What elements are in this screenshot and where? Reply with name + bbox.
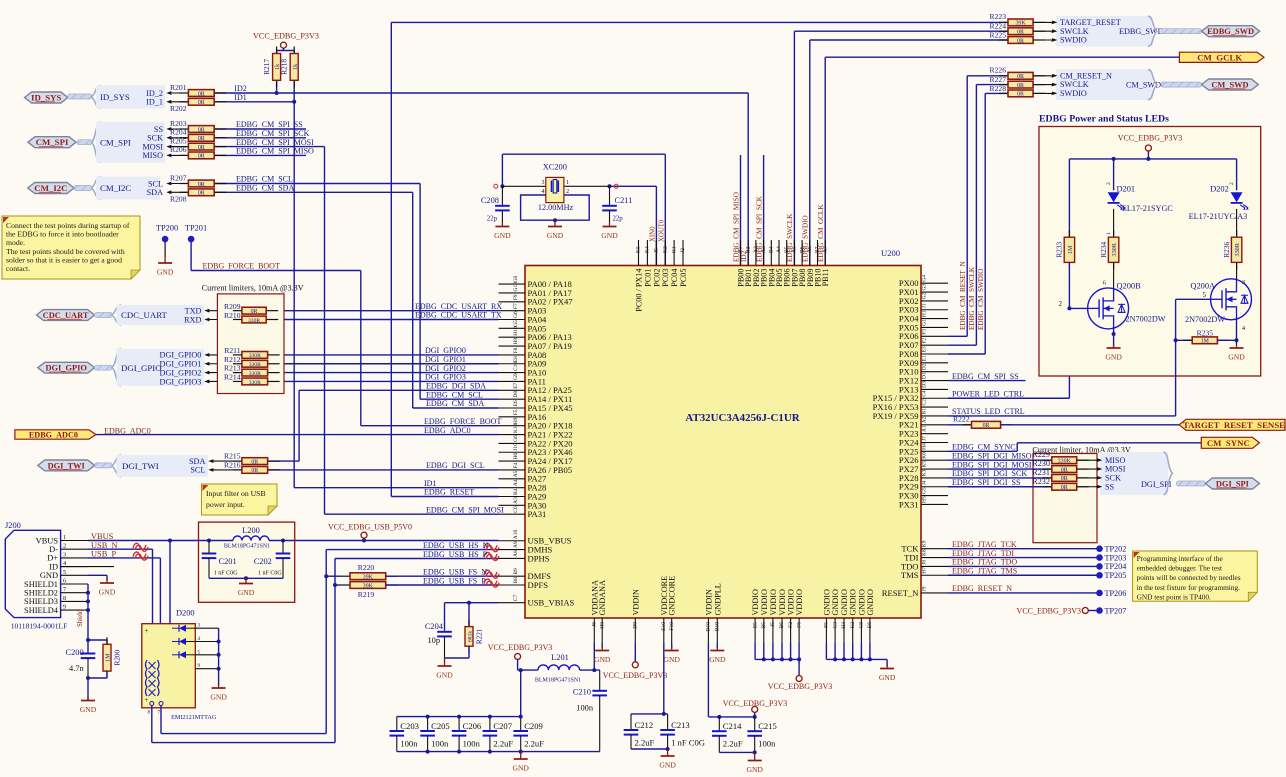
svg-text:GND: GND [238, 588, 255, 597]
svg-text:EDBG Power and Status LEDs: EDBG Power and Status LEDs [1039, 114, 1169, 125]
svg-text:EDBG CM SCL: EDBG CM SCL [236, 175, 293, 184]
svg-text:2: 2 [566, 188, 569, 195]
svg-text:0R: 0R [1061, 476, 1068, 482]
svg-text:D+: D+ [47, 554, 58, 563]
svg-text:C206: C206 [463, 721, 482, 731]
svg-text:GNDCORE: GNDCORE [668, 576, 677, 616]
svg-text:PC03: PC03 [661, 269, 670, 287]
svg-text:EDBG RESET: EDBG RESET [424, 488, 474, 497]
svg-text:L201: L201 [551, 653, 569, 662]
svg-text:Programming interface of the: Programming interface of the [1137, 554, 1223, 563]
svg-text:CM SYNC: CM SYNC [1207, 438, 1250, 448]
svg-text:H6: H6 [513, 453, 519, 460]
svg-text:1: 1 [1106, 232, 1112, 235]
svg-text:embedded debugger. The test: embedded debugger. The test [1137, 564, 1222, 573]
svg-text:XC200: XC200 [543, 163, 567, 172]
svg-text:330R: 330R [1111, 242, 1118, 256]
svg-text:GND: GND [1105, 353, 1122, 362]
svg-text:39K: 39K [363, 583, 374, 589]
svg-text:EDBG USB FS N: EDBG USB FS N [423, 568, 487, 577]
svg-text:EDBG USB FS P: EDBG USB FS P [423, 576, 486, 585]
svg-text:EDBG DGI SCL: EDBG DGI SCL [426, 461, 485, 470]
svg-text:R204: R204 [170, 128, 187, 137]
svg-text:USB N: USB N [91, 541, 118, 550]
svg-text:EDBG CM SDA: EDBG CM SDA [426, 399, 484, 408]
svg-text:100n: 100n [576, 703, 594, 712]
svg-text:SHIELD3: SHIELD3 [24, 597, 58, 606]
svg-text:H10: H10 [513, 326, 519, 336]
svg-text:F2: F2 [922, 338, 928, 344]
svg-text:ID1: ID1 [424, 479, 436, 488]
svg-text:F6: F6 [796, 622, 802, 628]
svg-text:PC05: PC05 [679, 269, 688, 287]
svg-text:R222: R222 [953, 415, 970, 424]
svg-text:0R: 0R [1017, 92, 1024, 98]
svg-text:D8: D8 [513, 391, 519, 398]
svg-text:A5: A5 [513, 470, 519, 477]
svg-text:H1: H1 [922, 310, 928, 317]
svg-text:100n: 100n [400, 738, 418, 748]
svg-text:GND: GND [494, 231, 511, 240]
svg-text:J9: J9 [922, 586, 928, 591]
svg-text:CM_I2C: CM_I2C [34, 183, 67, 193]
svg-text:MISO: MISO [1105, 456, 1126, 465]
svg-text:R216: R216 [224, 460, 241, 469]
svg-text:39K: 39K [363, 575, 374, 581]
svg-text:C7: C7 [513, 595, 519, 602]
svg-text:B5: B5 [784, 246, 790, 253]
svg-text:VCC_EDBG_P3V3: VCC_EDBG_P3V3 [1017, 606, 1081, 615]
svg-text:GND: GND [663, 655, 680, 664]
svg-text:K1: K1 [671, 246, 677, 253]
svg-text:A4: A4 [776, 246, 782, 253]
svg-text:8: 8 [63, 595, 66, 602]
svg-text:R211: R211 [224, 346, 240, 355]
svg-text:GND: GND [659, 761, 676, 770]
svg-text:EDBG JTAG TDI: EDBG JTAG TDI [952, 549, 1014, 558]
svg-text:BLM18PG471SN1: BLM18PG471SN1 [535, 678, 581, 684]
svg-text:K6: K6 [922, 452, 928, 459]
svg-text:CM_SWD: CM_SWD [1211, 81, 1248, 90]
svg-text:E5: E5 [752, 622, 758, 628]
svg-text:SHIELD1: SHIELD1 [24, 580, 58, 589]
svg-text:0R: 0R [198, 91, 205, 97]
svg-text:power input.: power input. [206, 500, 245, 509]
svg-text:R225: R225 [990, 30, 1007, 39]
svg-text:330R: 330R [1234, 242, 1241, 256]
svg-text:2: 2 [1229, 182, 1235, 185]
svg-text:R217: R217 [262, 59, 271, 75]
svg-text:EDBG DGI SDA: EDBG DGI SDA [426, 382, 486, 391]
svg-text:K2: K2 [662, 246, 668, 253]
svg-text:GND: GND [40, 571, 58, 580]
svg-text:XIN0: XIN0 [650, 226, 657, 242]
svg-text:A4: A4 [513, 479, 519, 486]
svg-text:EDBG CDC USART RX: EDBG CDC USART RX [415, 302, 502, 311]
svg-text:B6: B6 [779, 622, 785, 629]
svg-text:H3: H3 [841, 622, 847, 629]
svg-text:F9: F9 [513, 294, 519, 300]
svg-text:K10: K10 [513, 423, 519, 433]
svg-text:ID_SYS: ID_SYS [100, 92, 130, 102]
svg-text:2: 2 [1059, 301, 1063, 308]
svg-text:0R: 0R [198, 191, 205, 197]
svg-text:EDBG SPI DGI MOSI: EDBG SPI DGI MOSI [952, 460, 1032, 469]
svg-text:K4: K4 [645, 246, 651, 253]
svg-text:EDBG SPI DGI MISO: EDBG SPI DGI MISO [952, 451, 1032, 460]
svg-text:SS: SS [154, 125, 164, 134]
svg-text:contact.: contact. [6, 264, 30, 273]
svg-text:DGI_GPIO2: DGI_GPIO2 [160, 368, 202, 377]
svg-text:EDBG ADC0: EDBG ADC0 [424, 426, 471, 435]
svg-text:6: 6 [1103, 280, 1106, 287]
svg-text:EDBG JTAG TCK: EDBG JTAG TCK [952, 540, 1017, 549]
svg-text:R208: R208 [170, 195, 187, 204]
svg-text:100n: 100n [758, 739, 776, 749]
svg-text:2.2uF: 2.2uF [493, 738, 513, 748]
svg-text:SWCLK: SWCLK [1060, 27, 1089, 36]
svg-text:DGI GPIO0: DGI GPIO0 [425, 346, 466, 355]
svg-text:2.2uF: 2.2uF [524, 738, 544, 748]
svg-text:R235: R235 [1197, 328, 1214, 337]
svg-text:0R: 0R [251, 468, 258, 474]
svg-text:C208: C208 [481, 196, 499, 205]
svg-text:C205: C205 [431, 721, 450, 731]
svg-text:R227: R227 [990, 75, 1007, 84]
svg-text:B5: B5 [761, 622, 767, 629]
svg-text:C204: C204 [425, 622, 444, 631]
svg-text:R214: R214 [224, 372, 241, 381]
svg-text:B4: B4 [513, 488, 519, 495]
svg-text:G1: G1 [922, 319, 928, 326]
svg-text:H7: H7 [922, 567, 928, 574]
svg-text:R207: R207 [170, 173, 187, 182]
svg-text:EDBG CM SPI MOSI: EDBG CM SPI MOSI [426, 505, 504, 514]
svg-text:SWDIO: SWDIO [1060, 89, 1087, 98]
svg-text:G6: G6 [513, 311, 519, 318]
svg-text:C212: C212 [635, 720, 654, 730]
svg-text:VDDIN: VDDIN [631, 589, 640, 615]
svg-text:VBUS: VBUS [91, 532, 114, 541]
svg-text:R200: R200 [114, 650, 122, 666]
svg-text:E6: E6 [513, 400, 519, 406]
svg-text:R233: R233 [1055, 241, 1064, 257]
svg-text:MOSI: MOSI [143, 142, 164, 151]
svg-text:K5: K5 [636, 246, 642, 253]
svg-text:EDBG ADC0: EDBG ADC0 [104, 427, 151, 436]
svg-text:TP202: TP202 [1105, 545, 1127, 554]
svg-text:5: 5 [63, 569, 66, 576]
svg-text:22p: 22p [487, 216, 498, 223]
svg-text:9: 9 [63, 604, 66, 611]
svg-text:ID2: ID2 [234, 84, 246, 93]
svg-text:ID_SYS: ID_SYS [31, 93, 61, 103]
svg-text:C207: C207 [493, 721, 512, 731]
svg-text:CDC_UART: CDC_UART [121, 310, 168, 320]
svg-text:GND: GND [709, 655, 726, 664]
svg-text:USB P: USB P [91, 550, 116, 559]
svg-text:TP203: TP203 [1105, 553, 1127, 562]
svg-text:L200: L200 [242, 526, 260, 535]
svg-text:POWER LED CTRL: POWER LED CTRL [952, 389, 1024, 398]
svg-text:TMS: TMS [901, 570, 919, 580]
svg-text:R231: R231 [1032, 468, 1050, 477]
svg-text:VDDIN: VDDIN [704, 589, 713, 615]
svg-text:K5: K5 [922, 461, 928, 468]
svg-text:E2: E2 [850, 622, 856, 628]
svg-text:C214: C214 [723, 721, 742, 731]
svg-text:330R: 330R [249, 353, 261, 359]
svg-text:J200: J200 [5, 521, 21, 530]
svg-text:MISO: MISO [143, 151, 164, 160]
svg-text:PC02: PC02 [652, 269, 661, 287]
svg-text:SCK: SCK [1105, 474, 1121, 483]
svg-text:TP207: TP207 [1105, 606, 1127, 615]
svg-text:4: 4 [541, 188, 544, 195]
svg-text:USB_VBIAS: USB_VBIAS [528, 598, 575, 608]
svg-text:1k: 1k [292, 63, 299, 70]
svg-text:R202: R202 [170, 104, 187, 113]
svg-text:SWCLK: SWCLK [1060, 80, 1089, 89]
svg-text:F10: F10 [669, 622, 675, 631]
svg-text:E7: E7 [513, 382, 519, 388]
svg-text:G2: G2 [922, 292, 928, 299]
svg-text:EDBG JTAG TDO: EDBG JTAG TDO [952, 558, 1017, 567]
svg-text:in the test fixture for progra: in the test fixture for programming. [1137, 583, 1241, 592]
svg-text:R234: R234 [1099, 241, 1108, 257]
svg-text:GND: GND [547, 231, 564, 240]
svg-text:CM_SPI: CM_SPI [100, 137, 131, 147]
svg-text:GNDIO: GNDIO [866, 589, 875, 615]
svg-text:1 nF C0G: 1 nF C0G [214, 571, 238, 577]
svg-text:D200: D200 [176, 609, 195, 618]
svg-text:D-: D- [49, 545, 58, 554]
svg-text:330R: 330R [248, 318, 260, 324]
svg-text:A7: A7 [822, 246, 828, 253]
svg-text:EDBG CM SYNC: EDBG CM SYNC [952, 443, 1016, 452]
svg-text:A8: A8 [513, 550, 519, 557]
svg-text:H9: H9 [513, 338, 519, 345]
svg-text:DGI GPIO3: DGI GPIO3 [425, 373, 466, 382]
svg-text:GNDIO: GNDIO [831, 589, 840, 615]
svg-text:GND: GND [879, 673, 896, 682]
svg-text:R205: R205 [170, 136, 187, 145]
svg-text:J10: J10 [513, 443, 519, 451]
svg-text:EDBG CM SPI MISO: EDBG CM SPI MISO [236, 147, 314, 156]
svg-text:0R: 0R [251, 309, 258, 315]
svg-text:GND: GND [210, 693, 227, 702]
svg-text:10p: 10p [427, 636, 440, 645]
svg-text:TP201: TP201 [185, 223, 207, 232]
svg-text:0R: 0R [1061, 485, 1068, 491]
svg-text:J1: J1 [922, 303, 928, 308]
svg-text:10118194-0001LF: 10118194-0001LF [11, 622, 68, 631]
svg-text:0R: 0R [198, 145, 205, 151]
svg-text:EDBG CM RESET N: EDBG CM RESET N [959, 261, 967, 330]
svg-text:G10: G10 [513, 282, 519, 292]
svg-text:+: + [145, 696, 149, 704]
svg-text:DGI_GPIO0: DGI_GPIO0 [160, 351, 202, 360]
svg-text:GND: GND [99, 588, 116, 597]
svg-text:PC00 / PX14: PC00 / PX14 [635, 269, 644, 312]
svg-text:330R: 330R [249, 380, 261, 386]
svg-text:ID1: ID1 [234, 93, 246, 102]
svg-text:B4: B4 [769, 246, 775, 253]
svg-text:G3: G3 [922, 284, 928, 291]
svg-text:2N7002DW: 2N7002DW [1185, 315, 1225, 324]
svg-text:EDBG CM SPI MOSI: EDBG CM SPI MOSI [236, 138, 314, 147]
svg-text:A1: A1 [922, 425, 928, 432]
svg-text:EDBG CM SPI SS: EDBG CM SPI SS [952, 372, 1019, 381]
svg-text:EDBG SPI DGI SCK: EDBG SPI DGI SCK [952, 469, 1027, 478]
svg-text:GND: GND [512, 764, 529, 773]
svg-text:1M: 1M [1201, 339, 1210, 345]
svg-text:681k: 681k [468, 631, 474, 642]
svg-text:VDDIO: VDDIO [751, 589, 760, 615]
svg-text:CM_SPI: CM_SPI [36, 137, 69, 147]
svg-text:D3: D3 [922, 381, 928, 388]
svg-text:B6: B6 [799, 246, 805, 253]
svg-text:H5: H5 [922, 496, 928, 503]
svg-text:G4: G4 [922, 275, 928, 282]
svg-text:VBUS: VBUS [36, 536, 59, 545]
svg-text:G6: G6 [513, 435, 519, 442]
svg-text:2N7002DW: 2N7002DW [1126, 315, 1166, 324]
svg-text:J8: J8 [922, 560, 928, 565]
svg-text:K8: K8 [922, 549, 928, 556]
svg-text:EL17-21UYC/A3: EL17-21UYC/A3 [1189, 212, 1248, 221]
svg-text:GNDIO: GNDIO [840, 589, 849, 615]
svg-text:C213: C213 [671, 720, 690, 730]
svg-text:EDBG SWCLK: EDBG SWCLK [786, 213, 794, 262]
svg-text:F2: F2 [788, 622, 794, 628]
svg-text:SDA: SDA [147, 188, 163, 197]
svg-text:E10: E10 [661, 622, 667, 631]
svg-text:330K: 330K [1058, 459, 1072, 465]
svg-text:C202: C202 [254, 557, 272, 566]
svg-text:F3: F3 [922, 329, 928, 335]
svg-text:Input filter on USB: Input filter on USB [206, 489, 266, 498]
svg-text:RXD: RXD [184, 315, 201, 324]
svg-text:D2: D2 [922, 363, 928, 370]
svg-text:EDBG CM SCL: EDBG CM SCL [426, 390, 483, 399]
svg-text:VDDIO: VDDIO [769, 589, 778, 615]
svg-text:0R: 0R [198, 136, 205, 142]
svg-text:EDBG CM SPI SCK: EDBG CM SPI SCK [236, 129, 310, 138]
svg-text:R213: R213 [224, 364, 241, 373]
svg-text:22p: 22p [613, 216, 624, 223]
svg-text:B1: B1 [922, 408, 928, 415]
svg-text:ID_1: ID_1 [146, 98, 163, 107]
svg-text:R218: R218 [279, 59, 288, 75]
svg-text:R228: R228 [990, 84, 1007, 93]
svg-text:R201: R201 [170, 83, 187, 92]
svg-text:SDA: SDA [189, 457, 205, 466]
svg-text:GND: GND [746, 765, 763, 774]
svg-text:C4: C4 [922, 390, 928, 397]
svg-text:VDDIO: VDDIO [760, 589, 769, 615]
svg-text:TP204: TP204 [1105, 562, 1127, 571]
svg-text:F5: F5 [513, 409, 519, 415]
svg-text:EDBG FORCE BOOT: EDBG FORCE BOOT [424, 417, 501, 426]
svg-text:SCK: SCK [147, 134, 163, 143]
svg-text:C210: C210 [573, 687, 591, 696]
svg-text:TP200: TP200 [156, 223, 178, 232]
svg-text:B10: B10 [715, 622, 721, 631]
svg-text:EDBG JTAG TMS: EDBG JTAG TMS [952, 566, 1017, 575]
svg-text:GND test point is TP400.: GND test point is TP400. [1137, 592, 1211, 601]
svg-text:R232: R232 [1032, 477, 1050, 486]
svg-text:R209: R209 [224, 302, 241, 311]
svg-text:G9: G9 [513, 373, 519, 380]
svg-text:1: 1 [566, 179, 569, 186]
svg-text:CDC_UART: CDC_UART [43, 311, 89, 320]
svg-text:J7: J7 [922, 436, 928, 441]
svg-text:C3: C3 [832, 622, 838, 629]
svg-text:GND: GND [80, 705, 97, 714]
svg-text:EDBG RESET N: EDBG RESET N [952, 584, 1012, 593]
svg-text:Current limiters, 10mA @3.3V: Current limiters, 10mA @3.3V [202, 284, 304, 293]
svg-text:PX31: PX31 [899, 499, 919, 509]
svg-text:EDBG ADC0: EDBG ADC0 [29, 431, 78, 440]
svg-text:E1: E1 [922, 355, 928, 361]
svg-text:F8: F8 [513, 347, 519, 353]
svg-text:100n: 100n [463, 738, 481, 748]
svg-text:TARGET RESET SENSE: TARGET RESET SENSE [1183, 420, 1285, 430]
svg-text:VCC_EDBG_P3V3: VCC_EDBG_P3V3 [768, 682, 832, 691]
svg-text:GNDIO: GNDIO [822, 589, 831, 615]
svg-text:G5: G5 [922, 487, 928, 494]
svg-text:EDBG USB HS P: EDBG USB HS P [423, 550, 488, 559]
svg-text:U200: U200 [881, 248, 900, 258]
svg-text:RESET_N: RESET_N [882, 588, 920, 598]
svg-text:0R: 0R [198, 100, 205, 106]
svg-text:CM_RESET_N: CM_RESET_N [1060, 71, 1112, 80]
svg-text:R226: R226 [990, 66, 1007, 75]
svg-text:E3: E3 [922, 346, 928, 352]
svg-text:GNDANA: GNDANA [598, 580, 607, 616]
svg-text:DPFS: DPFS [528, 580, 549, 590]
svg-text:VCC_EDBG_P3V3: VCC_EDBG_P3V3 [253, 32, 319, 41]
svg-text:R210: R210 [224, 311, 241, 320]
svg-text:DGI_GPIO: DGI_GPIO [45, 364, 87, 373]
svg-text:A10: A10 [513, 530, 519, 540]
svg-text:0R: 0R [1061, 467, 1068, 473]
svg-text:R223: R223 [990, 12, 1007, 21]
svg-text:39K: 39K [1015, 21, 1026, 27]
svg-text:0R: 0R [251, 459, 258, 465]
svg-text:XOUT0: XOUT0 [658, 219, 665, 242]
svg-text:SCL: SCL [190, 466, 205, 475]
svg-text:0R: 0R [1017, 30, 1024, 36]
svg-text:1M: 1M [105, 653, 112, 662]
svg-text:C8: C8 [859, 622, 865, 629]
svg-text:12.00MHz: 12.00MHz [538, 203, 574, 212]
svg-text:A9: A9 [513, 541, 519, 548]
svg-text:CM_I2C: CM_I2C [100, 183, 131, 193]
svg-text:0R: 0R [198, 154, 205, 160]
svg-text:VCC_EDBG_P3V3: VCC_EDBG_P3V3 [1118, 133, 1182, 142]
svg-text:D202: D202 [1210, 185, 1229, 194]
svg-text:3: 3 [63, 551, 66, 558]
svg-text:GND: GND [436, 671, 453, 680]
svg-text:TP206: TP206 [1105, 589, 1127, 598]
svg-text:K9: K9 [922, 540, 928, 547]
svg-text:J4: J4 [922, 480, 928, 485]
svg-text:E6: E6 [867, 622, 873, 628]
svg-text:B1: B1 [738, 246, 744, 253]
svg-text:MOSI: MOSI [1105, 465, 1126, 474]
